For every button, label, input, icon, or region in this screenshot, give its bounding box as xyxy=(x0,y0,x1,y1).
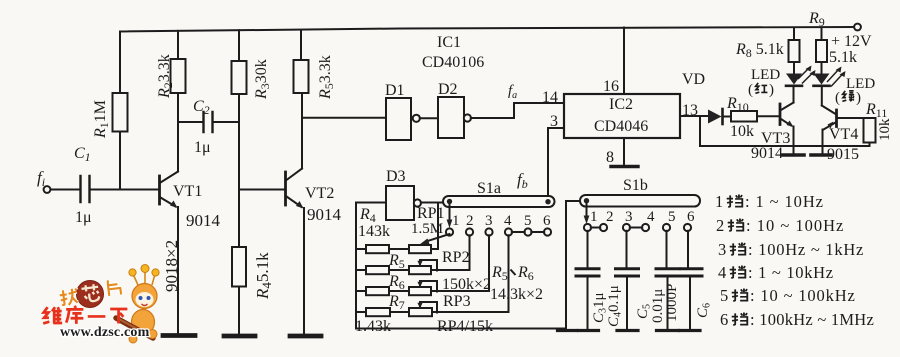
node +12V terminal xyxy=(854,24,861,31)
resistor R2 xyxy=(171,59,186,93)
svg-text:14: 14 xyxy=(542,89,558,106)
svg-text:9018×2: 9018×2 xyxy=(162,240,181,292)
svg-text:16: 16 xyxy=(603,78,619,95)
wire IC2 pin8 to ground xyxy=(623,138,625,165)
svg-text:R45.1k: R45.1k xyxy=(253,252,274,300)
svg-text:4: 4 xyxy=(647,209,655,225)
wire D1 to D2 xyxy=(420,117,438,119)
svg-text:R8 5.1k: R8 5.1k xyxy=(735,41,784,60)
svg-text:): ) xyxy=(856,90,861,106)
svg-text:VT2: VT2 xyxy=(305,185,334,202)
svg-text:R11M: R11M xyxy=(92,100,111,139)
svg-text:1.43k: 1.43k xyxy=(355,318,391,335)
node S1b contact 5 xyxy=(663,224,670,231)
svg-text:: 10 ~ 100Hz: : 10 ~ 100Hz xyxy=(746,216,844,235)
watermark text wei-ku-yi-xia xyxy=(43,306,127,324)
legend line 3 xyxy=(718,240,864,259)
resistor R4 5.1k xyxy=(232,247,246,287)
svg-text:: 10 ~ 100kHz: : 10 ~ 100kHz xyxy=(750,286,856,305)
svg-text:: 1 ~ 10Hz: : 1 ~ 10Hz xyxy=(745,192,824,211)
svg-text:10k: 10k xyxy=(730,123,754,140)
trimmer RP2 xyxy=(409,266,431,274)
ground bar C6 xyxy=(680,329,701,332)
wire R9 column top xyxy=(821,28,823,40)
svg-text:IC2: IC2 xyxy=(609,96,633,113)
svg-text:2: 2 xyxy=(466,213,474,229)
node S1b contact 4 xyxy=(642,224,649,231)
svg-text:3: 3 xyxy=(718,240,726,259)
wire R4 to ground xyxy=(238,287,240,335)
svg-text:10k: 10k xyxy=(877,118,893,141)
watermark mascot xyxy=(116,265,159,344)
svg-text:VD: VD xyxy=(682,71,705,88)
wire contact2 to row2 xyxy=(431,235,470,270)
node S1b contact 3 xyxy=(623,224,630,231)
ground R4 xyxy=(224,334,255,339)
wire ladder left bus xyxy=(355,203,357,329)
wire R3 column top xyxy=(238,30,240,61)
wire row4 left xyxy=(356,311,366,313)
wire IC2 pin16 to rail xyxy=(623,28,625,95)
svg-text:9014: 9014 xyxy=(307,205,342,224)
node S1a contact 4 xyxy=(505,228,512,235)
wire +12V top supply rail xyxy=(120,27,856,32)
wire row4 mid xyxy=(390,311,409,313)
node S1b contact 1 xyxy=(584,224,591,231)
wire row1 left xyxy=(356,248,366,250)
svg-text:9014: 9014 xyxy=(751,145,783,162)
wire contact3 to row3 xyxy=(432,235,489,291)
svg-text:150k×2: 150k×2 xyxy=(442,276,491,293)
svg-text:3: 3 xyxy=(550,113,558,130)
svg-text:3: 3 xyxy=(485,213,493,229)
wire S1a contacts 4-5-6 tie xyxy=(512,231,544,233)
capacitor C5 xyxy=(666,231,668,268)
wire R2 column top xyxy=(177,31,179,59)
trimmer RP4 xyxy=(409,308,432,316)
node S1a contact 3 xyxy=(485,228,492,235)
svg-text:5: 5 xyxy=(720,286,728,305)
wire R1 bottom to input node xyxy=(119,132,121,190)
svg-text:14.3k×2: 14.3k×2 xyxy=(490,286,543,303)
wire IC2 pin13 out xyxy=(680,115,708,117)
svg-text:www.dzsc.com: www.dzsc.com xyxy=(60,325,150,340)
node S1b contact 2 xyxy=(600,224,607,231)
svg-text:6: 6 xyxy=(720,310,728,329)
svg-text:2: 2 xyxy=(606,209,614,225)
svg-text:: 100Hz ~ 1kHz: : 100Hz ~ 1kHz xyxy=(748,240,864,259)
svg-text:1μ: 1μ xyxy=(194,139,211,156)
wire VT2 emitter to ground xyxy=(303,208,305,334)
svg-text:RP1: RP1 xyxy=(417,205,445,222)
node S1a contact 1 xyxy=(446,228,453,235)
wire row2 left xyxy=(356,269,366,271)
wire ladder bottom bus xyxy=(356,328,566,330)
wire riser to R4 row xyxy=(437,203,439,250)
resistor R9 5.1k right xyxy=(816,40,827,62)
capacitor C3 xyxy=(576,269,599,276)
legend line 6 xyxy=(720,310,874,329)
wire VT2 collector column xyxy=(301,93,303,169)
wire VT3 emitter to ground xyxy=(793,127,795,154)
svg-text:9015: 9015 xyxy=(827,146,859,163)
wire VT4 base to R11 xyxy=(838,117,870,119)
wire R8 to LED red xyxy=(793,62,795,73)
ground IC2 pin8 xyxy=(611,165,638,168)
wire S1b contacts 1-2 tie xyxy=(591,227,600,229)
ground VT3 xyxy=(783,153,804,157)
svg-text:5: 5 xyxy=(524,213,532,229)
svg-text:LED: LED xyxy=(751,67,780,83)
wire S1b contacts 3-4 tie xyxy=(630,227,642,229)
wire f_i to C1 xyxy=(51,189,80,191)
inverter D3 xyxy=(386,186,414,220)
transistor VT4 xyxy=(835,110,838,127)
LED red xyxy=(786,74,802,85)
ground bar C4 xyxy=(617,329,638,332)
svg-text:1: 1 xyxy=(452,213,460,229)
svg-text:D2: D2 xyxy=(438,81,458,98)
wire R8 column top xyxy=(793,28,795,40)
svg-text:VT4: VT4 xyxy=(829,126,858,143)
svg-text:R330k: R330k xyxy=(253,59,272,100)
wire S1a wiper arrow to contact 1 xyxy=(449,204,451,222)
transistor VT3 xyxy=(779,104,782,125)
watermark red circle behind xin xyxy=(77,281,104,308)
ground VT2 xyxy=(290,334,321,339)
svg-text:1.5M: 1.5M xyxy=(411,221,443,237)
wire lower bus to R11 xyxy=(700,145,870,147)
switch S1b wiper bar xyxy=(580,195,700,207)
wire R1 column top xyxy=(119,32,121,94)
watermark text zhao-xin-pian xyxy=(59,279,122,306)
wire VT1 collector column xyxy=(177,93,179,172)
wire ladder right riser xyxy=(565,201,567,329)
svg-text:): ) xyxy=(769,82,774,98)
wire row3 mid xyxy=(389,290,409,292)
wire C2 left xyxy=(178,121,203,123)
wire VD node down xyxy=(699,116,701,146)
wire row3 left xyxy=(356,290,366,292)
wire row2 mid xyxy=(389,269,409,271)
svg-text:5: 5 xyxy=(668,209,676,225)
svg-text:S1b: S1b xyxy=(623,177,648,194)
wire IC2 pin3 to f_b xyxy=(548,128,564,201)
resistor R4 143k xyxy=(366,245,389,253)
wire R5 column top xyxy=(300,30,302,60)
svg-text:6: 6 xyxy=(543,213,551,229)
ground bar C3 xyxy=(579,329,599,332)
trimmer RP3 xyxy=(409,287,431,295)
resistor R8 xyxy=(789,40,800,62)
svg-text:5.1k: 5.1k xyxy=(829,49,857,66)
svg-text:R53.3k: R53.3k xyxy=(317,55,336,100)
legend line 1 xyxy=(715,192,824,211)
legend line 2 xyxy=(716,216,844,235)
legend line 5 xyxy=(720,286,856,305)
ground VT1 xyxy=(163,333,195,338)
svg-text:D3: D3 xyxy=(386,168,406,185)
wire VT1 emitter to ground xyxy=(177,207,179,333)
wire RP1 wiper from contact1 xyxy=(426,234,450,242)
transistor VT1 xyxy=(158,176,161,204)
capacitor C1 xyxy=(81,176,90,202)
wire VT3 collector up xyxy=(793,87,795,103)
resistor R1 xyxy=(113,93,128,132)
inverter D2 xyxy=(438,97,464,138)
wire f_a D2 out to IC2 pin14 xyxy=(471,103,564,118)
svg-text:1: 1 xyxy=(715,192,723,211)
svg-text:VT1: VT1 xyxy=(173,183,202,200)
svg-text:D1: D1 xyxy=(385,82,405,99)
wire R9 to LED green xyxy=(821,62,823,73)
IC2 CD4046 box xyxy=(564,94,680,138)
diode VD xyxy=(708,110,722,124)
node f_i input terminal xyxy=(44,186,51,193)
trimmer RP1 xyxy=(409,245,431,253)
svg-text:143k: 143k xyxy=(358,223,390,240)
legend line 4 xyxy=(718,263,834,282)
svg-text:CD4046: CD4046 xyxy=(594,118,648,135)
wire R11 bottom xyxy=(869,143,871,147)
svg-text:(: ( xyxy=(835,90,840,106)
svg-text:S1a: S1a xyxy=(477,180,501,197)
node S1a contact 5 xyxy=(524,228,531,235)
svg-text:1μ: 1μ xyxy=(75,209,92,226)
resistor R5 xyxy=(294,60,309,93)
resistor R3 xyxy=(232,61,247,94)
svg-text:4: 4 xyxy=(718,263,726,282)
wire S1b wiper arrow to contact 1 xyxy=(586,203,588,218)
svg-text:: 1 ~ 10kHz: : 1 ~ 10kHz xyxy=(748,263,834,282)
svg-text:C40.1μ: C40.1μ xyxy=(606,285,624,327)
wire R3 bottom column xyxy=(238,94,240,247)
wire LED green to VT4 collector xyxy=(821,86,823,106)
wire contact4 to row4 xyxy=(432,235,509,312)
svg-text:6: 6 xyxy=(687,209,695,225)
wire contact1 to C3 xyxy=(587,231,589,268)
node S1a contact 2 xyxy=(466,228,473,235)
wire C2 right xyxy=(213,121,239,123)
svg-text:: 100kHz ~ 1MHz: : 100kHz ~ 1MHz xyxy=(750,310,874,329)
svg-text:1: 1 xyxy=(590,209,598,225)
node S1b contact 6 xyxy=(684,224,691,231)
wire D3 input xyxy=(356,202,386,204)
inverter D1 xyxy=(386,98,411,140)
capacitor C6 xyxy=(687,231,689,268)
svg-text:RP2: RP2 xyxy=(442,249,470,266)
wire D3 out to S1a wiper xyxy=(421,202,444,204)
wire riser to S1b pivot xyxy=(566,200,583,202)
wire VT2 base xyxy=(239,189,284,191)
wire R10 to VT3 base xyxy=(757,115,779,117)
ground VT4 xyxy=(811,153,831,157)
wire row1 mid xyxy=(389,248,409,250)
svg-text:+ 12V: + 12V xyxy=(831,33,872,50)
resistor R11 xyxy=(864,118,876,143)
switch S1a wiper bar xyxy=(443,196,555,207)
resistor R7 xyxy=(366,308,390,316)
svg-text:2: 2 xyxy=(716,216,724,235)
svg-text:13: 13 xyxy=(682,102,698,119)
svg-text:R23.3k: R23.3k xyxy=(156,54,175,99)
svg-text:RP4/15k: RP4/15k xyxy=(437,318,493,335)
resistor R6 xyxy=(366,287,389,295)
capacitor C4 xyxy=(626,231,628,268)
svg-text:RP3: RP3 xyxy=(443,293,471,310)
wire VT2 collector to D1 input xyxy=(302,117,386,119)
svg-text:8: 8 xyxy=(606,149,614,166)
svg-text:CD40106: CD40106 xyxy=(422,54,484,71)
wire C1 to VT1 base xyxy=(90,189,159,191)
wire VT4 emitter to ground xyxy=(822,130,824,154)
resistor R5 xyxy=(366,266,389,274)
resistor R10 xyxy=(731,111,757,122)
svg-text:3: 3 xyxy=(625,209,633,225)
ground bar S1b riser xyxy=(558,329,577,332)
svg-text:1000P: 1000P xyxy=(664,284,680,322)
transistor VT2 xyxy=(284,172,287,205)
svg-text:(: ( xyxy=(748,82,753,98)
svg-text:4: 4 xyxy=(504,213,512,229)
svg-text:IC1: IC1 xyxy=(437,34,461,51)
ground bar C5 xyxy=(657,329,679,332)
wire row1 right xyxy=(431,248,438,250)
LED green xyxy=(814,74,830,85)
svg-text:9014: 9014 xyxy=(186,211,221,230)
capacitor C2 xyxy=(204,112,213,132)
node S1a contact 6 xyxy=(544,228,551,235)
